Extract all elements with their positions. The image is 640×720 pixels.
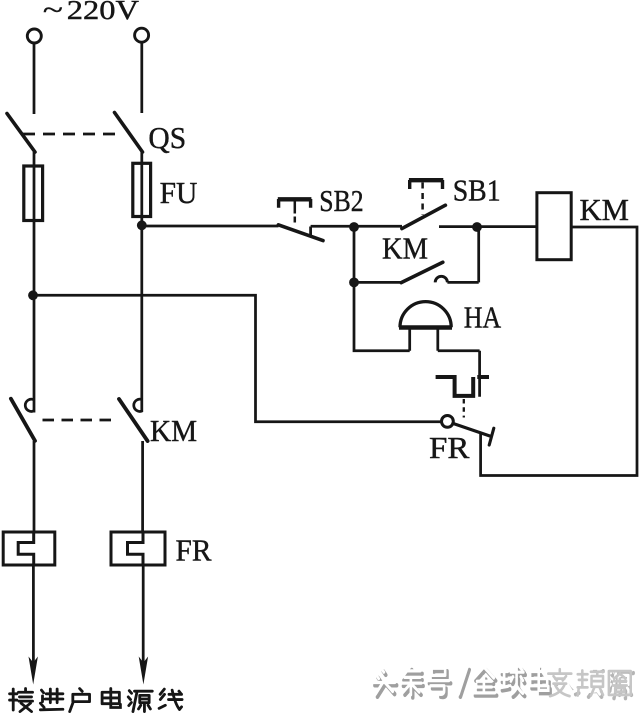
- svg-text:HA: HA: [464, 300, 502, 335]
- svg-text:FU: FU: [160, 175, 198, 210]
- svg-text:KM: KM: [150, 413, 197, 448]
- svg-text:FR: FR: [176, 533, 212, 568]
- svg-text:SB1: SB1: [453, 173, 501, 208]
- svg-text:KM: KM: [580, 192, 630, 227]
- svg-text:SB2: SB2: [319, 183, 363, 218]
- svg-text:~: ~: [43, 0, 63, 25]
- svg-text:FR: FR: [429, 430, 470, 465]
- svg-text:KM: KM: [382, 230, 428, 265]
- svg-text:QS: QS: [148, 120, 186, 155]
- svg-text:220V: 220V: [67, 0, 140, 25]
